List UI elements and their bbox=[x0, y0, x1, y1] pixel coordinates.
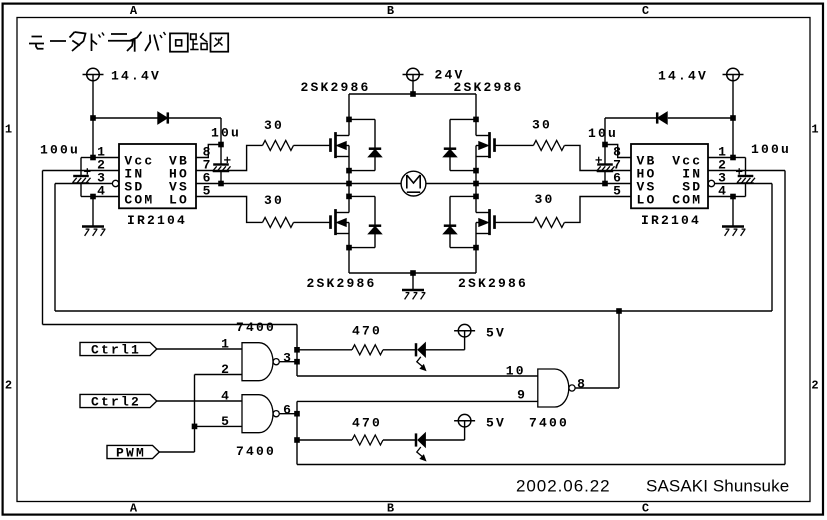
svg-text:2SK2986: 2SK2986 bbox=[307, 276, 377, 291]
svg-text:LO: LO bbox=[169, 192, 189, 207]
svg-text:PWM: PWM bbox=[116, 446, 146, 461]
svg-text:B: B bbox=[387, 4, 394, 18]
svg-text:14.4V: 14.4V bbox=[111, 69, 161, 84]
svg-text:9: 9 bbox=[517, 388, 527, 403]
svg-text:14.4V: 14.4V bbox=[658, 69, 708, 84]
svg-text:7400: 7400 bbox=[236, 320, 276, 335]
svg-text:470: 470 bbox=[352, 416, 382, 431]
svg-text:6: 6 bbox=[283, 403, 293, 418]
svg-text:COM: COM bbox=[124, 192, 154, 207]
svg-text:2SK2986: 2SK2986 bbox=[458, 276, 528, 291]
svg-text:2SK2986: 2SK2986 bbox=[301, 80, 371, 95]
svg-text:LO: LO bbox=[637, 192, 657, 207]
svg-text:4: 4 bbox=[97, 184, 107, 199]
svg-text:30: 30 bbox=[264, 118, 284, 133]
svg-text:7400: 7400 bbox=[529, 416, 569, 431]
svg-text:8: 8 bbox=[577, 377, 587, 392]
svg-text:4: 4 bbox=[221, 389, 231, 404]
svg-text:2002.06.22: 2002.06.22 bbox=[516, 477, 611, 496]
svg-text:IR2104: IR2104 bbox=[127, 213, 187, 228]
svg-text:30: 30 bbox=[264, 193, 284, 208]
svg-text:Ctrl2: Ctrl2 bbox=[91, 395, 141, 410]
svg-text:5: 5 bbox=[221, 414, 231, 429]
svg-text:30: 30 bbox=[532, 118, 552, 133]
svg-text:5V: 5V bbox=[486, 416, 506, 431]
svg-text:A: A bbox=[130, 4, 138, 18]
svg-text:100u: 100u bbox=[751, 142, 791, 157]
svg-text:2SK2986: 2SK2986 bbox=[454, 80, 524, 95]
svg-text:A: A bbox=[130, 502, 138, 516]
svg-text:B: B bbox=[387, 502, 394, 516]
svg-text:30: 30 bbox=[535, 192, 555, 207]
svg-text:470: 470 bbox=[352, 324, 382, 339]
svg-text:10u: 10u bbox=[588, 126, 618, 141]
svg-text:5V: 5V bbox=[486, 326, 506, 341]
svg-text:10u: 10u bbox=[211, 126, 241, 141]
svg-text:COM: COM bbox=[672, 192, 702, 207]
svg-text:IR2104: IR2104 bbox=[641, 213, 701, 228]
svg-text:7400: 7400 bbox=[236, 444, 276, 459]
svg-text:1: 1 bbox=[811, 123, 818, 137]
svg-text:C: C bbox=[642, 502, 649, 516]
svg-text:100u: 100u bbox=[40, 143, 80, 158]
svg-text:5: 5 bbox=[203, 184, 213, 199]
svg-text:2: 2 bbox=[221, 362, 231, 377]
svg-text:Ctrl1: Ctrl1 bbox=[91, 343, 141, 358]
svg-text:C: C bbox=[642, 4, 649, 18]
svg-text:SASAKI Shunsuke: SASAKI Shunsuke bbox=[646, 477, 789, 496]
svg-text:10: 10 bbox=[506, 364, 526, 379]
svg-text:1: 1 bbox=[5, 123, 12, 137]
svg-text:5: 5 bbox=[613, 184, 623, 199]
svg-text:2: 2 bbox=[5, 379, 12, 393]
svg-text:3: 3 bbox=[283, 351, 293, 366]
svg-text:4: 4 bbox=[718, 184, 728, 199]
svg-text:2: 2 bbox=[811, 379, 818, 393]
svg-text:1: 1 bbox=[221, 337, 231, 352]
